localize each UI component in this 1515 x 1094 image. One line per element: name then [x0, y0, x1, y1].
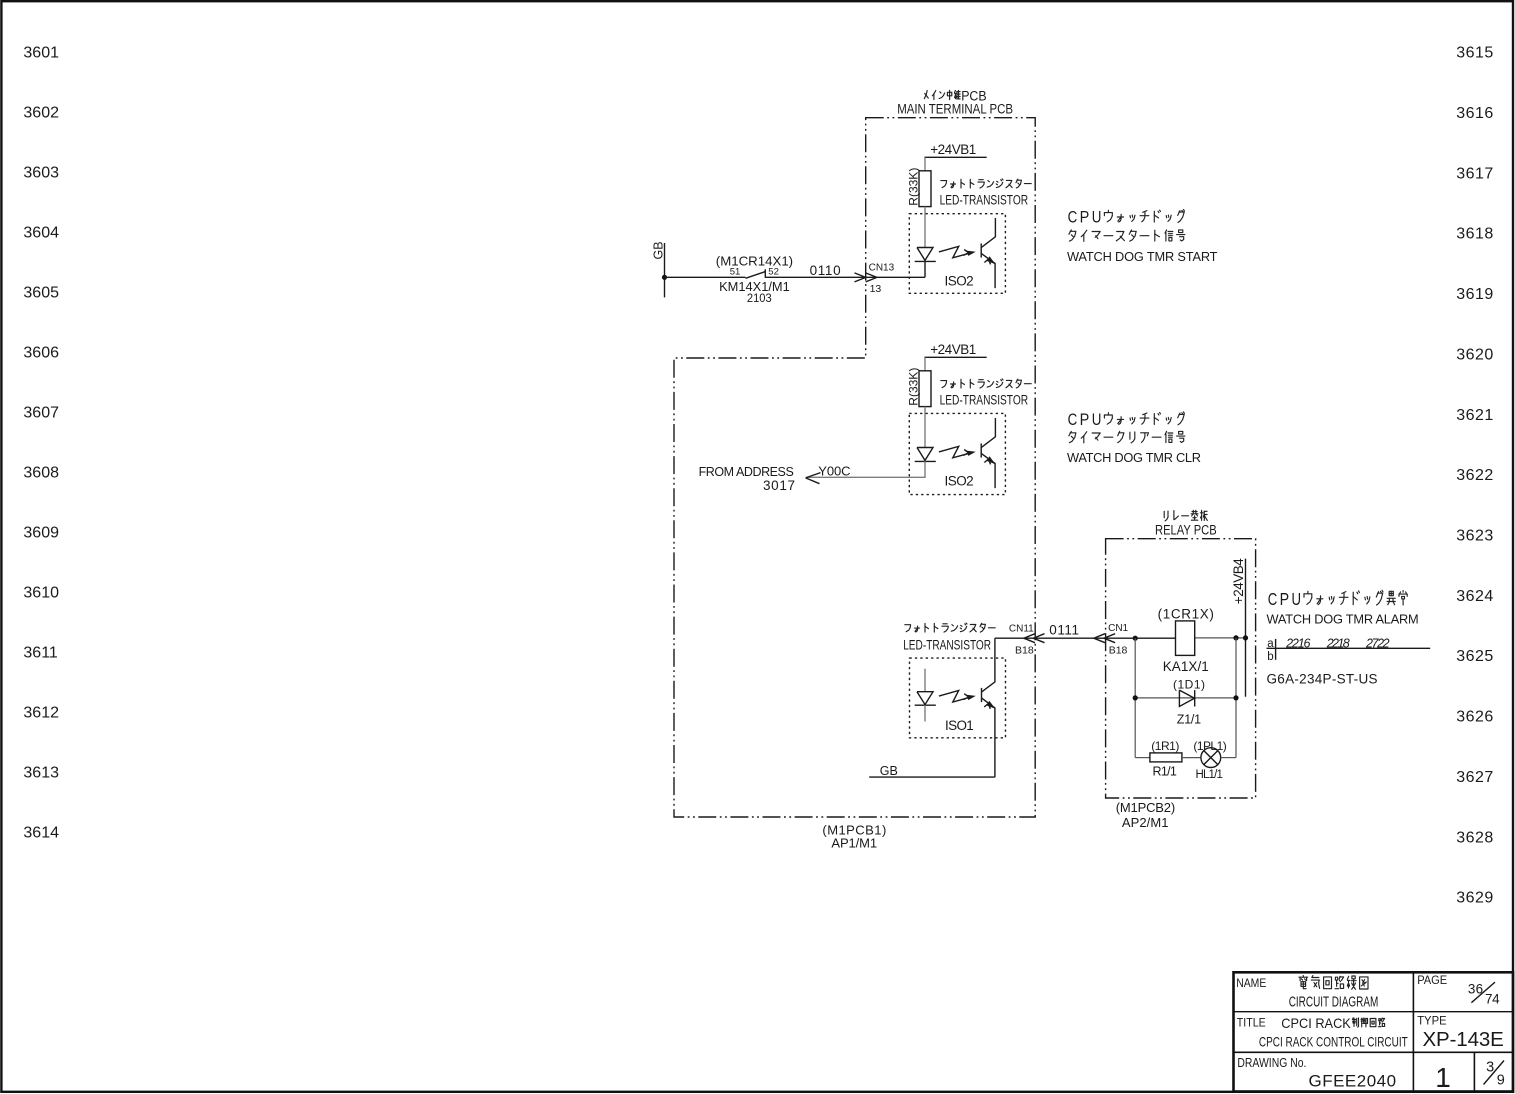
svg-text:3626: 3626: [1456, 709, 1494, 726]
svg-text:B18: B18: [1015, 644, 1034, 656]
svg-text:LED-TRANSISTOR: LED-TRANSISTOR: [940, 192, 1029, 207]
svg-text:3607: 3607: [23, 405, 59, 422]
svg-text:HL1/1: HL1/1: [1196, 769, 1223, 781]
svg-text:+24VB1: +24VB1: [930, 342, 976, 357]
svg-text:3609: 3609: [23, 525, 59, 542]
svg-text:3620: 3620: [1456, 346, 1494, 363]
svg-text:KA1X/1: KA1X/1: [1163, 659, 1209, 674]
svg-text:2216: 2216: [1285, 637, 1310, 651]
svg-text:GB: GB: [652, 241, 666, 259]
svg-text:C: C: [1268, 589, 1278, 609]
svg-text:3605: 3605: [23, 285, 59, 302]
svg-text:3615: 3615: [1456, 45, 1494, 62]
svg-text:TYPE: TYPE: [1417, 1016, 1447, 1028]
svg-text:2218: 2218: [1326, 637, 1350, 651]
svg-text:(1CR1X): (1CR1X): [1158, 606, 1214, 621]
svg-text:3606: 3606: [23, 345, 59, 362]
svg-text:b: b: [1267, 651, 1273, 663]
svg-text:WATCH DOG TMR START: WATCH DOG TMR START: [1067, 249, 1218, 264]
svg-text:U: U: [1291, 589, 1301, 609]
svg-text:DRAWING No.: DRAWING No.: [1237, 1055, 1306, 1070]
svg-text:13: 13: [870, 283, 882, 295]
svg-text:3619: 3619: [1456, 286, 1494, 303]
svg-text:B18: B18: [1109, 644, 1128, 656]
svg-text:3625: 3625: [1456, 648, 1494, 665]
svg-text:GFEE2040: GFEE2040: [1309, 1071, 1397, 1090]
svg-text:KM14X1/M1: KM14X1/M1: [719, 279, 790, 294]
svg-text:2103: 2103: [747, 293, 772, 305]
svg-text:CPCI RACK CONTROL CIRCUIT: CPCI RACK CONTROL CIRCUIT: [1259, 1034, 1408, 1050]
svg-text:3611: 3611: [23, 645, 58, 662]
svg-text:NAME: NAME: [1236, 978, 1266, 990]
svg-text:PAGE: PAGE: [1417, 975, 1447, 987]
svg-text:3613: 3613: [23, 765, 59, 782]
svg-text:3621: 3621: [1456, 407, 1494, 424]
svg-text:3618: 3618: [1456, 226, 1494, 243]
svg-text:ISO2: ISO2: [945, 274, 974, 289]
svg-text:3627: 3627: [1456, 769, 1494, 786]
svg-text:ISO2: ISO2: [945, 474, 974, 489]
svg-text:R(33K): R(33K): [907, 168, 921, 206]
svg-text:Z1/1: Z1/1: [1177, 712, 1201, 726]
svg-text:3603: 3603: [23, 165, 59, 182]
svg-text:CIRCUIT DIAGRAM: CIRCUIT DIAGRAM: [1289, 994, 1379, 1010]
svg-text:3604: 3604: [23, 225, 59, 242]
svg-text:XP-143E: XP-143E: [1423, 1028, 1504, 1051]
svg-text:74: 74: [1485, 991, 1500, 1006]
svg-text:CN1: CN1: [1108, 623, 1128, 634]
svg-text:WATCH DOG TMR ALARM: WATCH DOG TMR ALARM: [1267, 611, 1419, 626]
svg-text:LED-TRANSISTOR: LED-TRANSISTOR: [940, 392, 1029, 407]
svg-text:U: U: [1092, 207, 1102, 226]
svg-text:Y00C: Y00C: [818, 463, 850, 478]
svg-text:P: P: [1280, 589, 1290, 609]
svg-text:(1PL1): (1PL1): [1193, 739, 1226, 753]
svg-text:3617: 3617: [1456, 165, 1494, 182]
svg-text:AP1/M1: AP1/M1: [831, 836, 877, 851]
svg-text:9: 9: [1497, 1073, 1505, 1089]
svg-text:3612: 3612: [23, 705, 59, 722]
svg-text:CN11: CN11: [1009, 624, 1034, 635]
svg-text:P: P: [1080, 207, 1090, 226]
svg-text:WATCH DOG TMR CLR: WATCH DOG TMR CLR: [1067, 450, 1201, 465]
svg-text:LED-TRANSISTOR: LED-TRANSISTOR: [903, 638, 991, 653]
svg-text:(1D1): (1D1): [1173, 678, 1205, 692]
svg-text:3608: 3608: [23, 465, 59, 482]
svg-text:1: 1: [1435, 1062, 1451, 1093]
svg-text:0110: 0110: [810, 263, 841, 278]
svg-text:RELAY PCB: RELAY PCB: [1155, 522, 1217, 537]
svg-text:(M1CR14X1): (M1CR14X1): [716, 254, 793, 269]
svg-text:+24VB4: +24VB4: [1231, 558, 1246, 604]
svg-text:3628: 3628: [1456, 829, 1494, 846]
svg-text:3614: 3614: [23, 825, 59, 842]
svg-text:P: P: [1080, 410, 1090, 429]
svg-text:3623: 3623: [1456, 527, 1494, 544]
svg-text:3622: 3622: [1456, 467, 1494, 484]
svg-text:G6A-234P-ST-US: G6A-234P-ST-US: [1267, 672, 1378, 687]
svg-text:(1R1): (1R1): [1151, 739, 1179, 753]
svg-text:3629: 3629: [1456, 890, 1494, 907]
svg-text:3610: 3610: [23, 585, 59, 602]
svg-text:(M1PCB2): (M1PCB2): [1116, 800, 1176, 815]
svg-text:C: C: [1068, 410, 1078, 429]
svg-text:3601: 3601: [23, 45, 59, 62]
svg-text:CPCI RACK: CPCI RACK: [1281, 1015, 1351, 1031]
svg-text:3624: 3624: [1456, 588, 1494, 605]
svg-text:0111: 0111: [1049, 622, 1079, 637]
svg-text:U: U: [1092, 410, 1102, 429]
svg-text:ISO1: ISO1: [945, 718, 974, 733]
svg-text:R(33K): R(33K): [907, 368, 921, 406]
svg-text:TITLE: TITLE: [1237, 1017, 1266, 1029]
svg-text:3602: 3602: [23, 105, 59, 122]
svg-text:R1/1: R1/1: [1153, 765, 1177, 779]
svg-text:GB: GB: [880, 764, 898, 778]
svg-text:MAIN TERMINAL PCB: MAIN TERMINAL PCB: [897, 101, 1013, 116]
svg-text:2722: 2722: [1365, 637, 1390, 651]
svg-text:C: C: [1068, 207, 1078, 226]
svg-text:3616: 3616: [1456, 105, 1494, 122]
svg-text:AP2/M1: AP2/M1: [1122, 815, 1169, 830]
svg-text:CN13: CN13: [869, 263, 895, 274]
svg-text:3017: 3017: [763, 478, 795, 493]
svg-text:+24VB1: +24VB1: [930, 142, 976, 157]
